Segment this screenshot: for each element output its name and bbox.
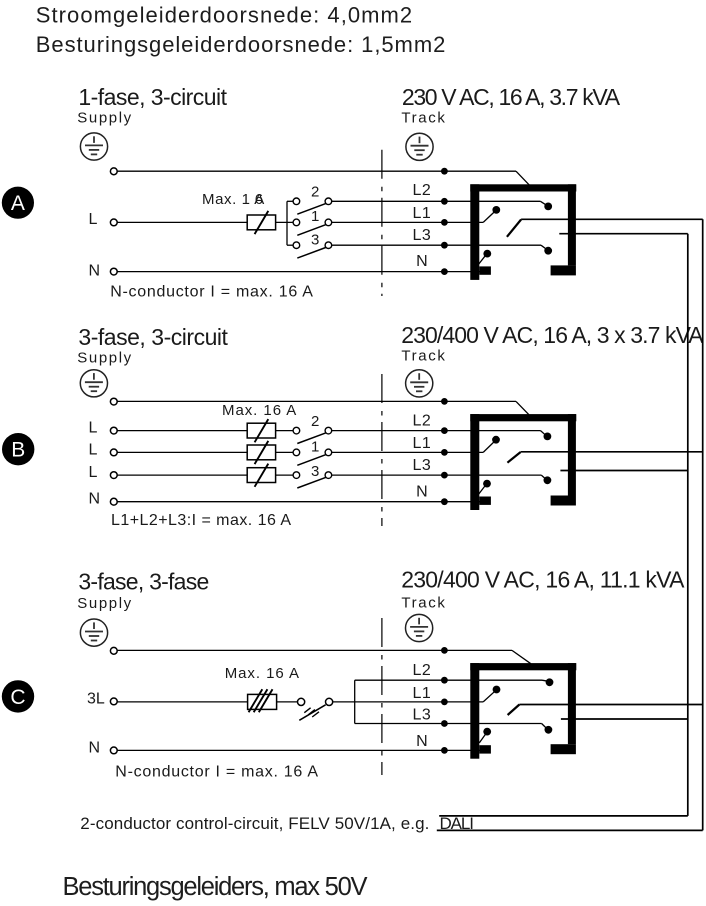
svg-text:L1+L2+L3:I = max. 16 A: L1+L2+L3:I = max. 16 A xyxy=(111,512,291,529)
svg-text:N: N xyxy=(416,484,428,501)
svg-text:L1: L1 xyxy=(413,205,432,222)
wire C L1 diagonal up to contact xyxy=(483,692,494,702)
junction C L3 at terminal column xyxy=(441,720,448,727)
svg-text:N-conductor I = max. 16 A: N-conductor I = max. 16 A xyxy=(115,763,318,780)
switch S2 (section B) left contact xyxy=(293,427,300,434)
svg-text:2-conductor control-circuit, F: 2-conductor control-circuit, FELV 50V/1A… xyxy=(80,814,429,833)
svg-text:L1: L1 xyxy=(413,435,432,452)
svg-text:3L: 3L xyxy=(87,690,105,707)
svg-text:C: C xyxy=(10,686,25,709)
svg-text:230/400 V AC, 16 A, 11.1 kVA: 230/400 V AC, 16 A, 11.1 kVA xyxy=(401,566,685,592)
svg-text:L3: L3 xyxy=(413,457,432,474)
wire B phase 2 from terminal to fuse xyxy=(117,430,247,432)
svg-text:B: B xyxy=(11,439,25,462)
fuse B Max.16A circuit 2 xyxy=(247,419,275,442)
track B internal pickup blade xyxy=(507,452,520,463)
track C internal pickup blade xyxy=(508,705,520,716)
junction A L1 at terminal column xyxy=(441,219,448,226)
junction A L3 at terminal column xyxy=(441,242,448,249)
junction A PE at terminal column xyxy=(441,168,448,175)
svg-text:L3: L3 xyxy=(413,706,432,723)
section badge C xyxy=(2,680,34,712)
svg-text:Max. 16 A: Max. 16 A xyxy=(222,402,297,419)
wire C N to track xyxy=(117,749,483,751)
terminal B-L3 xyxy=(110,472,117,479)
svg-text:230/400 V AC, 16 A, 3 x 3.7 kV: 230/400 V AC, 16 A, 3 x 3.7 kVA xyxy=(401,322,704,348)
svg-text:A: A xyxy=(11,192,25,215)
earth/ground symbol A supply PE xyxy=(80,133,107,160)
svg-text:Supply: Supply xyxy=(77,349,132,366)
earth/ground symbol A track PE xyxy=(406,133,433,160)
wire C PE horizontal xyxy=(117,649,512,651)
contact dot B track L3 xyxy=(544,476,552,484)
control bus outer bottom horizontal wire xyxy=(437,829,703,831)
svg-text:N: N xyxy=(416,733,428,750)
terminal C-N xyxy=(110,747,117,754)
wire A L2 diagonal to contact xyxy=(540,201,546,205)
switch S3 right contact xyxy=(325,242,332,249)
contact dot C track N xyxy=(483,728,491,736)
wire B L2 diagonal to contact xyxy=(541,431,546,436)
junction B PE at terminal column xyxy=(441,398,448,405)
terminal A-L xyxy=(110,219,117,226)
earth/ground symbol B track PE xyxy=(406,370,433,397)
switch S1 right contact xyxy=(325,219,332,226)
wire B L1 to track xyxy=(332,451,484,453)
junction C L2 at terminal column xyxy=(441,677,448,684)
wire B L1 diagonal up to contact xyxy=(483,442,494,453)
3-pole linkage tick 1 xyxy=(304,708,310,713)
switch S2 right contact xyxy=(325,427,332,434)
terminal A-PE xyxy=(110,168,117,175)
track connector C - left bar xyxy=(470,663,479,759)
switch S2 blade (open) xyxy=(297,204,325,215)
switch S3 (section B) left contact xyxy=(293,472,300,479)
switch (section C 3-pole) left contact xyxy=(298,698,305,705)
svg-text:N: N xyxy=(89,491,101,508)
svg-text:L1: L1 xyxy=(413,685,432,702)
switch S1 (section A circuit 1) left contact xyxy=(293,219,300,226)
switch S1 blade (open) xyxy=(297,455,325,466)
section badge B xyxy=(2,433,34,465)
svg-text:3-fase, 3-fase: 3-fase, 3-fase xyxy=(78,569,208,595)
contact dot C track L3 xyxy=(545,726,553,734)
dashed separation line (section C) xyxy=(381,618,383,775)
fan-out wire to L2 row xyxy=(355,679,542,681)
contact dot A track L2 xyxy=(544,203,552,211)
fuse B Max.16A circuit 1 xyxy=(247,441,275,464)
control wire A upper (to outer bus) xyxy=(521,218,703,220)
svg-text:Supply: Supply xyxy=(77,595,132,612)
svg-text:L3: L3 xyxy=(413,227,432,244)
track connector C - left foot lip xyxy=(479,745,491,753)
wire B L3 to track xyxy=(332,474,542,476)
switch S3 blade (open) xyxy=(297,248,325,259)
svg-text:Max. 16 A: Max. 16 A xyxy=(225,665,300,682)
contact dot A track L1 xyxy=(492,206,500,214)
dashed separation line (section A) xyxy=(381,150,383,296)
wire C PE diagonal into track top xyxy=(512,650,531,663)
contact dot A track L3 xyxy=(544,247,552,255)
fan-out vertical (section C splits 3L to three rows) xyxy=(354,680,356,723)
control bus inner vertical wire xyxy=(687,234,689,816)
junction B L1 at terminal column xyxy=(441,449,448,456)
earth/ground symbol B supply PE xyxy=(80,370,107,397)
dashed separation line (section B) xyxy=(381,374,383,526)
switch S3 right contact xyxy=(325,472,332,479)
track connector A - left foot lip xyxy=(479,266,491,274)
control bus inner bottom horizontal wire xyxy=(439,815,688,817)
junction A L2 at terminal column xyxy=(441,198,448,205)
wire C L3 diagonal to contact xyxy=(542,724,547,729)
svg-text:N: N xyxy=(89,263,101,280)
track connector C - top bar xyxy=(470,663,576,670)
wire A N to track xyxy=(117,271,483,273)
control wire B upper (joins outer bus) xyxy=(521,451,703,453)
3-pole linkage tick 3 xyxy=(312,712,319,717)
wire A N diagonal up to contact xyxy=(478,256,485,265)
svg-text:N: N xyxy=(416,253,428,270)
switch S1 blade (open) xyxy=(297,225,325,236)
wire A PE horizontal xyxy=(117,170,516,172)
track connector B - left bar xyxy=(470,414,479,510)
contact dot B track N xyxy=(483,480,491,488)
track connector A - right bar xyxy=(568,184,576,265)
svg-text:2: 2 xyxy=(311,413,319,430)
svg-text:Besturingsgeleiders, max 50V: Besturingsgeleiders, max 50V xyxy=(63,873,368,901)
junction A N at terminal column xyxy=(441,268,448,275)
switch S2 right contact xyxy=(325,198,332,205)
value label Max. 16A (section A, glyph collision as in original) xyxy=(202,191,264,208)
wire B L2 to track xyxy=(332,430,541,432)
svg-text:L: L xyxy=(89,441,98,458)
switch S2 blade (open) xyxy=(297,433,325,444)
wire C N diagonal up to contact xyxy=(479,735,485,743)
svg-text:L: L xyxy=(89,420,98,437)
wire B fuse 1 to switch xyxy=(276,451,294,453)
wire A L from terminal to fuse xyxy=(117,221,247,223)
svg-text:Besturingsgeleiderdoorsnede: 1: Besturingsgeleiderdoorsnede: 1,5mm2 xyxy=(36,32,446,57)
wire A circuit2 to track (L2 row) xyxy=(332,200,541,202)
junction C PE at terminal column xyxy=(441,647,448,654)
wire C switch to fan-out xyxy=(333,701,484,703)
terminal B-PE xyxy=(110,398,117,405)
wire C fuse to switch xyxy=(277,701,298,703)
track connector A - top bar xyxy=(470,184,576,191)
contact dot C track L1 xyxy=(493,686,501,694)
svg-text:Track: Track xyxy=(401,110,446,127)
contact dot C track L2 xyxy=(546,678,554,686)
track A internal pickup blade xyxy=(507,220,521,237)
svg-text:Stroomgeleiderdoorsnede: 4,0mm: Stroomgeleiderdoorsnede: 4,0mm2 xyxy=(36,2,413,27)
svg-text:Max. 1: Max. 1 xyxy=(202,191,251,208)
section badge A xyxy=(2,187,34,219)
track connector C - right bar xyxy=(568,663,576,744)
control wire A lower (to inner bus) xyxy=(559,233,688,235)
control wire C upper (joins outer bus) xyxy=(519,704,702,706)
junction B L2 at terminal column xyxy=(441,427,448,434)
switch (section C) right contact xyxy=(326,698,333,705)
switch blade (open, 3-pole) xyxy=(299,705,325,721)
wire A L3 diagonal to contact xyxy=(541,245,547,249)
svg-text:Supply: Supply xyxy=(77,110,132,127)
wire A circuit1 to track (L1 row) xyxy=(332,221,484,223)
wire A fuse to distributor xyxy=(276,221,294,223)
wire A L1 diagonal up to contact xyxy=(483,212,494,222)
svg-text:L2: L2 xyxy=(413,662,432,679)
track connector B - left foot lip xyxy=(479,497,491,505)
wire B N to track xyxy=(117,501,483,503)
svg-text:N-conductor I = max. 16 A: N-conductor I = max. 16 A xyxy=(110,283,313,300)
wire B PE horizontal xyxy=(117,400,516,402)
track connector B - right foot lip xyxy=(551,496,576,506)
control wire C lower (joins inner bus) xyxy=(561,718,688,720)
svg-text:L2: L2 xyxy=(413,182,432,199)
wire A circuit3 to track (L3 row) xyxy=(332,244,541,246)
switch S3 blade (open) xyxy=(297,477,325,488)
track connector C - right foot lip xyxy=(551,744,576,754)
svg-text:1-fase, 3-circuit: 1-fase, 3-circuit xyxy=(78,84,227,110)
earth/ground symbol C supply PE xyxy=(80,619,107,646)
fuse A Max.16A xyxy=(247,211,275,234)
svg-text:A: A xyxy=(254,191,264,208)
wire C 3L from terminal to fuse xyxy=(117,701,247,703)
wire B PE diagonal into track top xyxy=(516,401,529,414)
track connector A - right foot lip xyxy=(551,265,576,275)
junction C N at terminal column xyxy=(441,747,448,754)
track connector B - right bar xyxy=(568,414,576,495)
switch S1 (section B) left contact xyxy=(293,449,300,456)
junction C L1 at terminal column xyxy=(441,699,448,706)
distributor vertical (section A splits L into 3 circuits) xyxy=(286,201,288,245)
terminal A-N xyxy=(110,268,117,275)
svg-text:1: 1 xyxy=(311,439,319,456)
svg-text:DALI: DALI xyxy=(440,814,474,833)
contact dot B track L2 xyxy=(544,433,552,441)
switch S1 right contact xyxy=(325,449,332,456)
contact dot A track N xyxy=(483,250,491,258)
svg-text:2: 2 xyxy=(311,183,319,200)
wire B phase 1 from terminal to fuse xyxy=(117,451,247,453)
stub to circuit 2 contact xyxy=(287,200,293,202)
switch S2 (section A circuit 2) left contact xyxy=(293,198,300,205)
svg-text:3-fase, 3-circuit: 3-fase, 3-circuit xyxy=(78,324,228,350)
wire B phase 3 from terminal to fuse xyxy=(117,474,247,476)
wire B fuse 2 to switch xyxy=(276,430,294,432)
fuse C Max.16A 3-pole xyxy=(248,689,277,712)
wire B N diagonal up to contact xyxy=(478,486,485,495)
svg-text:L: L xyxy=(89,464,98,481)
wire C L2 diagonal to contact xyxy=(542,680,548,681)
wire B L3 diagonal to contact xyxy=(541,475,546,479)
terminal B-L2 xyxy=(110,427,117,434)
contact dot B track L1 xyxy=(492,436,500,444)
svg-text:3: 3 xyxy=(311,463,319,480)
3-pole linkage tick 2 xyxy=(308,710,315,715)
wire B fuse 3 to switch xyxy=(276,474,294,476)
terminal B-N xyxy=(110,498,117,505)
junction B L3 at terminal column xyxy=(441,472,448,479)
switch S3 (section A circuit 3) left contact xyxy=(293,242,300,249)
terminal C-PE xyxy=(110,647,117,654)
fuse B Max.16A circuit 3 xyxy=(247,464,275,487)
terminal B-L1 xyxy=(110,449,117,456)
svg-text:3: 3 xyxy=(311,232,319,249)
svg-text:1: 1 xyxy=(311,208,319,225)
earth/ground symbol C track PE xyxy=(406,614,433,641)
control bus outer vertical wire xyxy=(702,219,704,830)
control wire B lower (joins inner bus) xyxy=(560,470,687,472)
stub to circuit 3 contact xyxy=(287,244,293,246)
track connector A - left bar xyxy=(470,184,479,280)
svg-text:L: L xyxy=(89,211,98,228)
fan-out wire to L3 row xyxy=(355,723,542,725)
svg-text:Track: Track xyxy=(401,348,446,365)
svg-text:N: N xyxy=(89,739,101,756)
track connector B - top bar xyxy=(470,414,576,421)
wire A PE diagonal into track top xyxy=(516,171,529,185)
svg-text:Track: Track xyxy=(401,595,446,612)
junction B N at terminal column xyxy=(441,498,448,505)
svg-text:L2: L2 xyxy=(413,413,432,430)
svg-text:230 V AC, 16 A, 3.7 kVA: 230 V AC, 16 A, 3.7 kVA xyxy=(402,84,621,110)
terminal C-3L xyxy=(110,698,117,705)
